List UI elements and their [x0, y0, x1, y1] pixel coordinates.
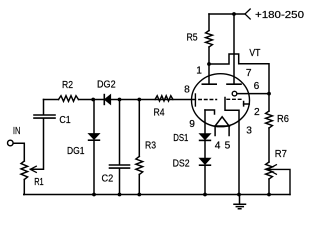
svg-text:R5: R5 [187, 33, 198, 44]
svg-text:IN: IN [13, 126, 21, 137]
svg-text:1: 1 [196, 66, 202, 77]
svg-text:DG2: DG2 [97, 80, 116, 91]
svg-text:5: 5 [225, 141, 231, 152]
svg-text:4: 4 [215, 141, 221, 152]
svg-text:6: 6 [254, 81, 260, 92]
svg-text:R4: R4 [154, 108, 165, 119]
svg-text:DS1: DS1 [173, 133, 188, 144]
svg-text:2: 2 [254, 107, 260, 118]
svg-text:R6: R6 [277, 114, 289, 125]
svg-text:R1: R1 [34, 177, 44, 188]
svg-text:+180-250: +180-250 [255, 10, 304, 21]
svg-text:7: 7 [246, 68, 252, 79]
svg-text:R3: R3 [145, 141, 156, 152]
svg-text:R2: R2 [62, 80, 73, 91]
svg-text:C1: C1 [59, 115, 71, 126]
svg-text:3: 3 [246, 125, 252, 136]
svg-text:DS2: DS2 [173, 159, 190, 170]
svg-text:8: 8 [184, 84, 190, 95]
svg-text:C2: C2 [102, 174, 114, 185]
svg-text:DG1: DG1 [67, 146, 85, 157]
svg-text:R7: R7 [275, 149, 288, 160]
svg-text:9: 9 [189, 119, 195, 130]
svg-text:VT: VT [249, 48, 260, 59]
